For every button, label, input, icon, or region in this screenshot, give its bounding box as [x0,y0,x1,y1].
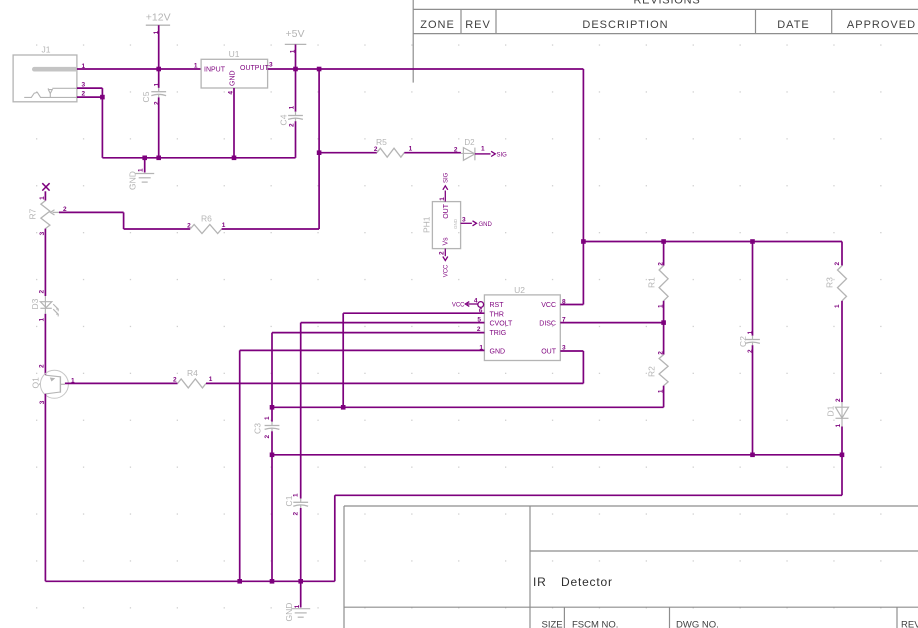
svg-text:GND: GND [284,603,294,622]
svg-text:3: 3 [269,62,273,69]
svg-text:1: 1 [834,304,841,308]
svg-text:Q1: Q1 [30,377,40,389]
svg-text:2: 2 [264,435,271,439]
svg-text:Detector: Detector [561,575,613,589]
svg-text:+12V: +12V [146,12,171,24]
svg-text:2: 2 [173,377,177,384]
svg-text:IR: IR [533,575,547,589]
svg-text:1: 1 [835,424,842,428]
svg-text:1: 1 [222,222,226,229]
svg-text:4: 4 [474,298,478,305]
svg-text:R6: R6 [201,214,212,224]
svg-text:C2: C2 [738,336,748,347]
svg-text:1: 1 [138,168,145,172]
svg-text:C3: C3 [253,423,263,434]
svg-text:1: 1 [409,146,413,153]
svg-text:VCC: VCC [452,303,465,309]
svg-text:1: 1 [289,105,296,109]
svg-text:2: 2 [439,251,446,255]
svg-text:DESCRIPTION: DESCRIPTION [582,19,668,31]
svg-text:VCC: VCC [443,264,449,277]
svg-text:R2: R2 [647,366,657,377]
svg-text:1: 1 [289,49,296,53]
svg-text:2: 2 [39,364,46,368]
svg-text:TRIG: TRIG [490,330,507,337]
svg-text:OUT: OUT [443,203,450,219]
svg-text:C4: C4 [279,114,289,125]
svg-text:C5: C5 [141,91,151,102]
svg-text:SIG: SIG [444,172,450,183]
svg-text:+5V: +5V [286,28,305,40]
svg-text:3: 3 [462,216,466,223]
svg-text:REV: REV [901,620,918,628]
svg-text:2: 2 [454,147,458,154]
svg-text:D1: D1 [826,405,836,416]
svg-text:DWG NO.: DWG NO. [676,620,719,628]
svg-text:R5: R5 [376,137,387,147]
svg-text:PH1: PH1 [422,216,432,233]
svg-text:1: 1 [38,318,45,322]
svg-text:FSCM NO.: FSCM NO. [572,620,618,628]
svg-text:DISC: DISC [539,321,556,328]
svg-text:SIZE: SIZE [542,620,563,628]
svg-text:U2: U2 [514,285,525,295]
svg-text:2: 2 [834,262,841,266]
svg-text:U1: U1 [229,49,240,59]
svg-text:ZONE: ZONE [420,19,455,31]
svg-text:THR: THR [490,311,504,318]
svg-text:2: 2 [63,206,67,213]
svg-text:2: 2 [658,351,665,355]
svg-text:VCC: VCC [541,302,556,309]
svg-text:1: 1 [439,197,446,201]
svg-text:INPUT: INPUT [204,67,226,74]
svg-text:1: 1 [294,604,301,608]
svg-text:2: 2 [187,223,191,230]
svg-text:OUT: OUT [541,349,557,356]
svg-text:1: 1 [264,416,271,420]
svg-text:1: 1 [293,493,300,497]
svg-text:REV: REV [465,19,491,31]
svg-text:CVOLT: CVOLT [490,321,514,328]
svg-text:2: 2 [293,512,300,516]
svg-text:GND: GND [230,70,237,86]
svg-text:1: 1 [39,196,46,200]
svg-text:RST: RST [490,302,505,309]
svg-text:GND: GND [490,349,506,356]
svg-text:1: 1 [747,331,754,335]
svg-text:Vs: Vs [443,237,450,246]
svg-text:APPROVED: APPROVED [847,19,916,31]
svg-text:DATE: DATE [777,19,810,31]
svg-text:REVISIONS: REVISIONS [633,0,700,7]
svg-text:2: 2 [835,398,842,402]
svg-text:R7: R7 [28,208,38,219]
svg-text:1: 1 [153,30,160,34]
svg-text:2: 2 [288,123,295,127]
svg-text:2: 2 [38,290,45,294]
svg-text:2: 2 [374,146,378,153]
svg-text:2: 2 [658,262,665,266]
svg-text:GND: GND [453,218,458,229]
svg-text:1: 1 [209,376,213,383]
svg-text:SIG: SIG [497,152,508,158]
svg-text:J1: J1 [42,45,51,55]
svg-text:OUTPUT: OUTPUT [240,65,270,72]
svg-text:R1: R1 [647,277,657,288]
svg-text:R3: R3 [825,277,835,288]
svg-text:1: 1 [481,146,485,153]
svg-text:1: 1 [194,63,198,70]
svg-text:D3: D3 [30,298,40,309]
svg-text:GND: GND [479,222,493,228]
svg-text:1: 1 [153,83,160,87]
svg-text:D2: D2 [464,138,475,147]
svg-text:R4: R4 [187,368,198,378]
